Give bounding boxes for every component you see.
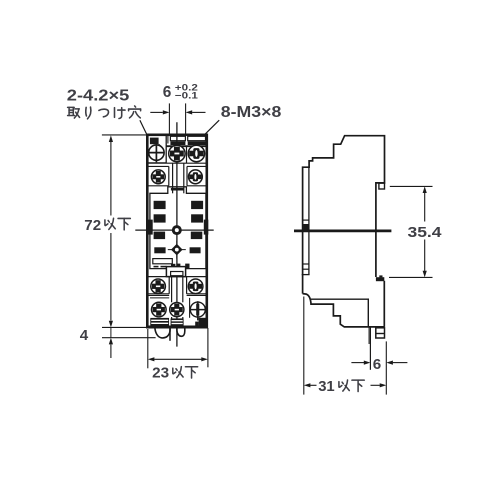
small pad E1 bbox=[171, 264, 175, 268]
top-left cell divider bbox=[165, 135, 167, 163]
body bottom edge thick bbox=[147, 326, 207, 329]
side view: right edge lower bbox=[383, 281, 385, 327]
row4 second line left bbox=[150, 297, 169, 299]
clamp plate stack center bbox=[171, 318, 184, 326]
side view: bottom latch box bbox=[376, 328, 385, 338]
side view: inner ledge line bbox=[310, 299, 369, 327]
svg-text:4: 4 bbox=[80, 327, 89, 344]
front view: socket body outline bbox=[147, 135, 207, 327]
center channel wall right bbox=[183, 163, 185, 193]
screw M3 row3-right bbox=[188, 279, 203, 294]
small pad E3 bbox=[185, 264, 189, 268]
left edge contact bar bbox=[148, 220, 153, 235]
dimension 23: line with outward arrows bbox=[154, 358, 201, 360]
molded text marks bbox=[154, 266, 159, 268]
svg-text:2-4.2×5: 2-4.2×5 bbox=[67, 87, 130, 104]
lower channel wall right upper bbox=[182, 277, 184, 303]
front view: vertical centerline bbox=[176, 122, 178, 346]
right edge contact bar bbox=[204, 220, 209, 235]
side view: bottom outline bbox=[303, 294, 385, 327]
contact pad B-left bbox=[154, 214, 166, 222]
top-left black marker square bbox=[150, 138, 159, 145]
lower channel wall right lower bbox=[182, 317, 184, 327]
dimension 72: vertical line with arrows bbox=[110, 141, 112, 216]
screw M3 top-right bbox=[188, 145, 204, 161]
row4 divider right bbox=[187, 294, 207, 296]
svg-text:35.4: 35.4 bbox=[408, 224, 443, 241]
row4 right cell wall bbox=[189, 298, 191, 318]
dimension 23: extension lines bbox=[147, 329, 149, 368]
screw hole top-left (open cross) bbox=[149, 145, 164, 160]
row divider line 2 right bbox=[187, 165, 207, 167]
row2 left cell wall bbox=[168, 166, 170, 185]
row2 left cell bottom bbox=[147, 185, 169, 187]
contact pad D-left bbox=[154, 247, 165, 253]
molded label rectangle bbox=[153, 259, 173, 264]
screw M3 row4-center bbox=[170, 303, 184, 317]
top band bottom thick line bbox=[166, 145, 207, 147]
row3 left cell bottom bbox=[147, 293, 169, 295]
dimension 31: line with outward arrows bbox=[304, 383, 311, 387]
side view: channel bottom box bbox=[303, 268, 309, 270]
top band tick bbox=[167, 135, 169, 144]
bottom-right black block bbox=[199, 318, 207, 327]
side view: channel dark clamp bbox=[303, 224, 309, 232]
contact pad A-left bbox=[154, 201, 166, 209]
dimension 72: top extension line bbox=[102, 134, 147, 136]
dimension 35.4: extension lines bbox=[390, 185, 433, 187]
svg-text:6: 6 bbox=[373, 356, 381, 373]
channel black bar bbox=[171, 188, 184, 191]
hold-down clip outer bbox=[166, 267, 185, 277]
row2 right cell wall bbox=[186, 166, 188, 185]
center target marker bbox=[168, 241, 186, 259]
svg-text:8-M3×8: 8-M3×8 bbox=[221, 104, 282, 121]
divider between top screws bbox=[186, 146, 188, 163]
row3 right cell wall bbox=[186, 277, 188, 294]
screw M3 row4-left bbox=[152, 302, 167, 317]
hold-down clip inner bbox=[171, 272, 183, 276]
contact pad C-right bbox=[191, 232, 203, 240]
bottom hook center vertical bbox=[169, 327, 171, 341]
bottom hook curves bbox=[155, 327, 170, 338]
leader line left bbox=[140, 120, 147, 134]
inner contact area outline with top notch bbox=[150, 187, 206, 269]
center channel wall left bbox=[172, 163, 174, 193]
contact pad C-left bbox=[154, 232, 166, 240]
screw M3 row4-right bbox=[190, 302, 205, 317]
contact pad A-right bbox=[191, 201, 203, 209]
svg-text:72: 72 bbox=[84, 217, 101, 234]
top terminal dark bar right bbox=[188, 141, 206, 145]
small pad E2 bbox=[176, 264, 180, 268]
side view: release lever line bbox=[368, 327, 370, 344]
screw M3 row2-left bbox=[151, 170, 165, 184]
svg-text:6: 6 bbox=[163, 84, 172, 101]
side view: left channel inner line bbox=[308, 167, 310, 274]
center ring contact bbox=[172, 225, 182, 235]
screw M3 top-center bbox=[169, 145, 185, 161]
contact pad B-right bbox=[191, 214, 203, 222]
side view: upper outline (left steps, top, right edge) bbox=[303, 136, 385, 294]
lower channel wall left upper bbox=[171, 277, 173, 303]
row3 right cell bottom bbox=[187, 293, 207, 295]
dimension 6 (side): extension bbox=[385, 341, 387, 394]
svg-text:31: 31 bbox=[318, 378, 335, 395]
row3 left cell wall bbox=[168, 277, 170, 294]
lower section top line bbox=[147, 276, 207, 278]
top terminal slot left (outline) bbox=[170, 136, 185, 140]
side view: channel tick bbox=[303, 219, 309, 221]
leader line right bbox=[204, 120, 219, 135]
side view: channel tick upper bbox=[303, 263, 309, 265]
svg-text:−0.1: −0.1 bbox=[175, 91, 198, 101]
top-left marker diagonal bbox=[159, 144, 162, 146]
label torituke-ana (mounting holes) bbox=[68, 107, 80, 118]
dimension 6: line and arrows bbox=[150, 111, 163, 113]
dimension 4: extension lines bbox=[102, 326, 147, 328]
dimension 4: lower line and arrow bbox=[110, 327, 112, 337]
row divider line 1 bbox=[147, 162, 207, 164]
side view: bottom-right hook step bbox=[376, 277, 384, 281]
clamp plate stack left bbox=[150, 318, 169, 327]
row2 right cell bottom bbox=[187, 185, 207, 187]
screw M3 row2-right bbox=[189, 170, 203, 184]
front view: horizontal centerline bbox=[135, 229, 213, 231]
side view: DIN notch box top-right bbox=[379, 183, 385, 189]
svg-text:23: 23 bbox=[152, 365, 169, 382]
dimension 31: extension line left bbox=[303, 297, 305, 395]
row4 divider left bbox=[147, 294, 169, 296]
dimension 6 (side): line and arrows bbox=[351, 362, 364, 364]
screw M3 row3-left bbox=[151, 279, 166, 294]
top-left cell bottom line bbox=[147, 162, 166, 164]
top terminal dark bar left bbox=[170, 141, 185, 145]
top terminal slot right (outline) bbox=[188, 136, 206, 140]
contact pad D-right bbox=[190, 247, 201, 253]
side view: DIN rail thick line bbox=[294, 229, 391, 232]
row divider line 2 left bbox=[147, 165, 169, 167]
dim 35.4 arrows bbox=[423, 186, 427, 193]
lower channel wall left lower bbox=[171, 317, 173, 327]
dimension 6+0.2-0.1: extension lines bbox=[168, 103, 170, 134]
